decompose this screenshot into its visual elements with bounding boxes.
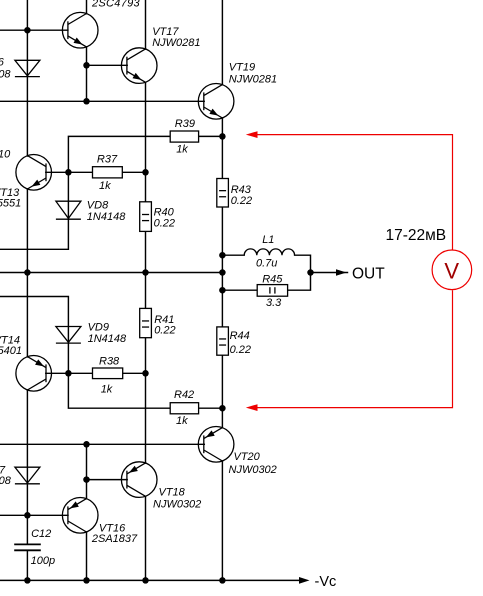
wire rail B R40 to R41 <box>145 231 147 308</box>
wire rail A top to VT15 <box>86 0 88 14</box>
svg-text:R43: R43 <box>231 184 252 196</box>
wire R37 to rail B <box>122 171 145 173</box>
node red probe arrow top <box>246 131 258 138</box>
wire rail C VT19 emitter to R43 <box>221 118 223 179</box>
wire left rail top through VD6 <box>26 0 28 156</box>
resistor R44 <box>217 327 229 355</box>
wire left rail C12 to bottom <box>26 550 28 580</box>
svg-text:R45: R45 <box>262 273 283 285</box>
svg-text:NJW0302: NJW0302 <box>229 464 277 476</box>
wire bias row to VT19 base <box>0 100 204 102</box>
svg-text:C12: C12 <box>31 528 51 540</box>
wire VT15 emitter to VT17 base <box>87 64 128 66</box>
wire R38 to rail B <box>123 372 146 374</box>
wire base feed y30 <box>0 29 68 31</box>
svg-text:OUT: OUT <box>352 265 385 282</box>
svg-text:VT18: VT18 <box>159 487 186 499</box>
transistor VT17 NJW0281 <box>121 48 157 84</box>
svg-text:0.22: 0.22 <box>231 195 252 207</box>
wire red probe bottom <box>256 290 453 407</box>
transistor VT13 2N5551 <box>16 155 52 191</box>
svg-text:0.22: 0.22 <box>154 325 175 337</box>
resistor R38 <box>93 368 123 379</box>
wire rail B VT17 emitter to R40 <box>145 82 147 202</box>
transistor VT18 NJW0302 <box>121 462 157 498</box>
wire R39 row left <box>68 136 170 172</box>
svg-text:1k: 1k <box>99 180 111 192</box>
wire bottom -Vc rail <box>0 579 301 581</box>
resistor R37 <box>93 167 123 178</box>
svg-text:NJW0302: NJW0302 <box>153 499 201 511</box>
svg-text:NJW0281: NJW0281 <box>152 37 200 49</box>
wire red probe top <box>256 135 453 251</box>
svg-text:1N4148: 1N4148 <box>88 333 127 345</box>
node OUT arrow <box>336 269 347 276</box>
resistor R42 <box>170 403 198 414</box>
resistor R45 <box>257 285 287 297</box>
wire rail B top to VT17 <box>145 0 147 49</box>
transistor VT14 2N5401 <box>16 356 52 392</box>
svg-text:R44: R44 <box>230 330 250 342</box>
diode VD8 1N4148 <box>56 201 81 219</box>
wire rail C R44 to VT20 <box>221 355 223 428</box>
svg-text:VT20: VT20 <box>234 451 261 463</box>
wire rail A VT16 emitter chain <box>86 444 88 499</box>
transistor VT15 2SC4793 <box>62 12 98 48</box>
svg-text:VD9: VD9 <box>88 321 109 333</box>
svg-text:2SC4793: 2SC4793 <box>91 0 141 10</box>
resistor R43 <box>217 179 229 208</box>
wire VT20 base row <box>0 443 204 445</box>
wire R42 to rail C <box>199 407 223 409</box>
node -Vc arrow <box>299 577 310 584</box>
svg-text:VT17: VT17 <box>152 26 179 38</box>
svg-text:1N5408: 1N5408 <box>0 68 11 80</box>
wire R45 branch left <box>222 289 256 291</box>
wire VT18 base row <box>87 479 128 481</box>
wire VT14 base row <box>46 372 93 374</box>
svg-text:1N4148: 1N4148 <box>87 211 126 223</box>
svg-text:VD8: VD8 <box>87 200 109 212</box>
svg-text:0.22: 0.22 <box>154 218 175 230</box>
svg-text:R39: R39 <box>175 118 195 130</box>
wire rail B R41 to VT18 <box>145 338 147 463</box>
wire rail C VT20 collector to bottom <box>221 461 223 580</box>
wire rail C R43 to R44 <box>221 207 223 327</box>
svg-text:1k: 1k <box>176 415 188 427</box>
diode VD7 <box>15 467 40 484</box>
wire rail C top to VT19 <box>221 0 223 85</box>
svg-text:R37: R37 <box>97 154 118 166</box>
svg-text:VT19: VT19 <box>229 62 255 74</box>
svg-text:1N5408: 1N5408 <box>0 475 12 487</box>
wire VT13 base row <box>46 171 93 173</box>
wire R39 to rail C <box>199 135 223 137</box>
svg-text:-Vc: -Vc <box>315 574 337 590</box>
wire L1 right corner <box>295 255 311 272</box>
svg-text:R40: R40 <box>154 206 175 218</box>
svg-text:10: 10 <box>0 149 11 161</box>
svg-text:3.3: 3.3 <box>266 297 282 309</box>
transistor VT19 NJW0281 <box>198 84 234 120</box>
transistor VT20 NJW0302 <box>198 427 234 463</box>
wire rail B VT18 collector to bottom <box>145 496 147 580</box>
wire VD9 corner from left through VD9 <box>0 297 68 374</box>
svg-text:2SA1837: 2SA1837 <box>91 533 138 545</box>
svg-text:NJW0281: NJW0281 <box>229 74 277 86</box>
svg-text:V: V <box>444 259 459 284</box>
wire left rail VT14 through VD7 to C12 <box>26 390 28 544</box>
resistor R39 <box>170 131 198 142</box>
junction node dots <box>24 27 314 584</box>
wire VT16 base row <box>0 514 68 516</box>
svg-text:1k: 1k <box>101 383 113 395</box>
wire rail A VT15 emitter down <box>86 47 88 101</box>
diode VD6 <box>15 60 40 76</box>
wire OUT arrow shaft <box>311 272 348 274</box>
svg-text:17-22мВ: 17-22мВ <box>386 227 447 244</box>
resistor R40 <box>140 202 152 232</box>
svg-text:100p: 100p <box>31 555 55 567</box>
svg-text:R42: R42 <box>174 389 194 401</box>
wire rail A VT16 collector to bottom <box>86 532 88 580</box>
svg-text:L1: L1 <box>262 234 274 246</box>
transistor VT16 2SA1837 <box>62 498 98 534</box>
wire R45 right corner <box>288 273 311 291</box>
svg-text:2N5401: 2N5401 <box>0 345 22 357</box>
wire L1 branch left <box>222 254 244 256</box>
node red probe arrow bottom <box>246 404 258 411</box>
wire through VD8 corner to left <box>0 172 68 249</box>
resistor R41 <box>140 308 152 337</box>
capacitor C12 <box>14 544 41 550</box>
voltmeter V symbol <box>432 250 472 290</box>
svg-text:0.7u: 0.7u <box>256 258 277 270</box>
wire R42 row left <box>68 373 170 408</box>
svg-text:R38: R38 <box>99 356 120 368</box>
wire output mid rail <box>0 272 222 274</box>
svg-text:1k: 1k <box>176 144 188 156</box>
diode VD9 1N4148 <box>56 327 81 344</box>
svg-text:0.22: 0.22 <box>230 344 251 356</box>
inductor L1 <box>244 249 294 255</box>
svg-text:2N5551: 2N5551 <box>0 197 21 209</box>
wire left rail VT13 to VT14 <box>26 189 28 357</box>
